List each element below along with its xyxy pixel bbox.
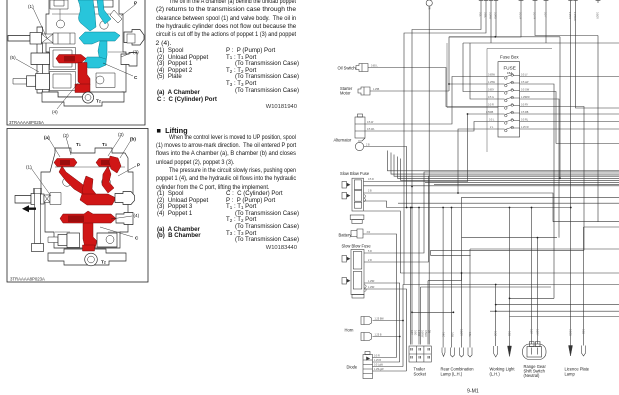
base slab fig2 <box>48 249 126 265</box>
slow fuse2 out2 bus elbow <box>364 176 619 262</box>
svg-text:Lamp (L.H.): Lamp (L.H.) <box>441 372 463 377</box>
svg-text:0.5 R: 0.5 R <box>374 355 380 358</box>
svg-text:2B: 2B <box>428 330 431 333</box>
battery connector <box>351 229 363 238</box>
svg-text:0.5 RY: 0.5 RY <box>521 104 529 107</box>
wire stub521 elbow <box>449 3 521 91</box>
spool rod shaft <box>8 36 30 42</box>
FIGURE 1 (top-left hydraulic valve, cyan+red) <box>0 0 152 127</box>
bus line b2 <box>391 153 619 175</box>
diode wire 2 <box>373 361 400 363</box>
svg-text:C: C <box>135 236 139 241</box>
valve body main block <box>41 148 133 248</box>
fuse row2 feed <box>449 83 498 85</box>
red mid channel <box>60 211 116 226</box>
range pin2 drop <box>537 238 539 344</box>
terminal stub x521 <box>519 0 524 3</box>
bottom-left bolt head <box>58 235 67 246</box>
bus line b7 <box>434 183 619 185</box>
svg-text:0.5GR: 0.5GR <box>596 12 599 19</box>
leader (5) <box>16 59 39 72</box>
svg-text:1.25 B: 1.25 B <box>375 334 382 337</box>
fuse exit row8 <box>520 128 619 130</box>
rear combination pin 1 <box>442 348 445 357</box>
starter motor connector <box>358 87 370 95</box>
spool x-box <box>42 34 54 43</box>
lower cartridge <box>50 72 76 91</box>
svg-text:(4): (4) <box>134 213 140 218</box>
leader (3) <box>108 136 121 156</box>
figure 2 border frame <box>7 129 148 283</box>
wire stub535 elbow <box>535 3 598 36</box>
red poppet top-left <box>54 159 77 167</box>
bottom-left bolt shaft <box>48 237 58 243</box>
svg-text:0.85 L: 0.85 L <box>371 65 378 68</box>
licence plate pin 1 <box>569 346 573 357</box>
svg-text:1.25LgW: 1.25LgW <box>374 368 384 371</box>
bus line b1 <box>388 151 619 171</box>
terminal stub x481 <box>479 0 483 3</box>
svg-text:0.5L: 0.5L <box>468 332 471 337</box>
bolt circle bottom <box>66 236 74 244</box>
licence plate pin 2 <box>582 346 586 357</box>
alternator connector <box>355 114 365 141</box>
svg-text:0.85L: 0.85L <box>484 12 487 19</box>
svg-text:0.85W: 0.85W <box>488 74 496 77</box>
svg-text:Slow Blow Fuse: Slow Blow Fuse <box>340 171 370 176</box>
svg-text:(1): (1) <box>26 165 32 170</box>
svg-text:0.5GB: 0.5GB <box>569 329 572 336</box>
valve body main block <box>46 0 126 97</box>
right plug P fitting <box>124 30 144 46</box>
svg-text:0.5GR: 0.5GR <box>460 329 463 336</box>
red center column <box>82 176 96 200</box>
terminal stub x546 <box>544 0 549 3</box>
red poppet top-right <box>96 159 118 167</box>
oil switch wire to fuse row5 <box>368 68 498 107</box>
svg-text:0.5G: 0.5G <box>442 332 445 337</box>
terminal stub x491 <box>489 0 493 3</box>
svg-text:2 R: 2 R <box>368 259 372 262</box>
svg-text:0.5L: 0.5L <box>479 12 482 17</box>
wire y36.8 <box>449 36 560 38</box>
diode wire 1 <box>373 357 397 359</box>
bus line b9 <box>462 196 619 198</box>
svg-text:0.5C: 0.5C <box>494 331 497 336</box>
leader (4) <box>57 82 79 109</box>
svg-text:0.5WB: 0.5WB <box>486 111 494 114</box>
wire stub546 down <box>545 3 547 43</box>
spool section fig2 <box>50 193 61 205</box>
spool center section <box>53 33 75 44</box>
arrow mark <box>22 205 36 212</box>
T2 boss circle <box>82 92 93 103</box>
working light pin 2 <box>508 346 512 357</box>
oil switch connector <box>356 64 368 72</box>
svg-text:1.25 R: 1.25 R <box>568 12 571 19</box>
list A right <box>226 48 299 94</box>
bolt circle upper <box>57 20 65 28</box>
wire licence rail left <box>570 3 572 346</box>
W code B <box>200 245 297 251</box>
wire fuse row4 feed <box>470 43 498 99</box>
svg-text:0.5GR: 0.5GR <box>424 330 427 337</box>
connector circle top <box>426 0 432 6</box>
W code A <box>200 104 297 110</box>
fuse exit row2 <box>520 84 554 298</box>
svg-text:1.25R: 1.25R <box>368 280 375 283</box>
right lower boss circle <box>106 236 114 244</box>
svg-text:Slow Blow Fuse: Slow Blow Fuse <box>342 244 372 249</box>
svg-text:0.5 R: 0.5 R <box>488 104 494 107</box>
svg-text:(a): (a) <box>44 135 50 140</box>
svg-text:C: C <box>134 75 138 80</box>
svg-text:Motor: Motor <box>340 91 351 96</box>
svg-text:Alternator: Alternator <box>334 138 352 143</box>
diode wire 3 <box>373 366 404 368</box>
svg-text:T2: T2 <box>101 260 106 265</box>
range gear shift switch <box>523 342 547 360</box>
leader P <box>121 4 136 16</box>
wire stub496 down <box>495 3 497 37</box>
cyan top right column <box>97 0 111 24</box>
rear combination pin 2 <box>451 348 455 358</box>
middle cartridge <box>50 48 76 70</box>
junction dots <box>411 186 413 188</box>
wire v403 <box>402 285 404 367</box>
svg-text:1.25B: 1.25B <box>373 88 380 91</box>
body internal lines <box>49 0 123 75</box>
svg-text:1.25RW: 1.25RW <box>521 96 530 99</box>
leader (1) <box>31 168 51 196</box>
svg-text:15A: 15A <box>507 71 512 75</box>
svg-text:(3): (3) <box>133 50 139 55</box>
range pin1 drop <box>531 208 533 345</box>
cyan horizontal channel <box>79 32 120 44</box>
slow blow fuse 1 <box>342 178 366 223</box>
svg-text:2B: 2B <box>428 7 431 10</box>
cyan vertical drop <box>98 41 107 62</box>
svg-text:1.25 B: 1.25 B <box>374 359 381 362</box>
wire link 462 <box>461 273 463 281</box>
leader (4) <box>111 216 132 219</box>
red mid dark core <box>68 216 84 223</box>
svg-text:0.5B: 0.5B <box>582 329 585 334</box>
svg-text:Oil Switch: Oil Switch <box>338 65 357 70</box>
fuse exit row5 <box>520 107 584 251</box>
bus riser b9 <box>461 197 463 237</box>
svg-text:0.5RW: 0.5RW <box>421 330 424 338</box>
lower bolt shaft <box>13 79 27 85</box>
red bottom foot <box>83 245 95 251</box>
terminal stub x535 <box>533 0 538 3</box>
leader (1) <box>33 8 47 38</box>
earth circle <box>355 142 363 150</box>
slow fuse1 out3 <box>364 193 554 222</box>
wire stub486 elbow to rail404 <box>404 3 486 285</box>
wire stub481 elbow to rail412 <box>412 3 481 345</box>
horn connector 2 <box>361 333 372 341</box>
svg-text:5 R: 5 R <box>368 250 372 253</box>
spool rod shaft fig2 <box>15 196 31 204</box>
alternator wire 1 to fuse row1 <box>365 77 498 125</box>
svg-text:(3): (3) <box>118 132 124 137</box>
svg-text:T2: T2 <box>96 99 101 104</box>
wire y221.7 <box>553 221 619 223</box>
wire licence rail right elbow <box>576 3 619 108</box>
red foot <box>75 84 90 93</box>
fuse exit row6 <box>520 113 619 115</box>
svg-text:(5): (5) <box>10 55 16 60</box>
licence pin2 drop <box>583 227 585 346</box>
alternator wire 2 to fuse row7 <box>365 122 498 132</box>
slow fuse2 out4 <box>364 289 407 371</box>
terminal stub x598 <box>596 0 601 3</box>
fuse exit row7 <box>520 121 619 123</box>
svg-text:2 B: 2 B <box>366 144 370 147</box>
fuse row8 feed riser <box>458 129 498 193</box>
wire y255.3 <box>431 250 471 255</box>
lower bolt block <box>36 74 50 90</box>
working pin2 drop <box>509 208 511 347</box>
WIRING DIAGRAM <box>330 0 619 395</box>
leader (3) <box>121 52 133 57</box>
rear pin1 drop <box>442 208 444 348</box>
plate foot <box>32 244 44 252</box>
diode block <box>363 352 373 379</box>
slow blow fuse 2 <box>342 250 366 299</box>
svg-text:1.25B: 1.25B <box>417 330 420 337</box>
bus line b4 <box>398 157 619 179</box>
red vertical passage <box>78 63 90 87</box>
slow fuse1 out2 long <box>364 185 619 187</box>
bus line b6 <box>425 181 619 183</box>
leader P <box>118 166 136 176</box>
svg-text:0.5R: 0.5R <box>530 329 533 334</box>
bolt circle left <box>63 178 72 187</box>
top cap left <box>50 0 68 9</box>
horn connector 1 <box>361 317 372 325</box>
svg-text:0.5 R: 0.5 R <box>368 178 374 181</box>
cyan lower nozzle <box>84 57 106 68</box>
red poppet dark core <box>64 56 75 62</box>
trailer feed d <box>420 287 422 345</box>
svg-text:0.5B: 0.5B <box>451 332 454 337</box>
svg-text:Diode: Diode <box>347 365 358 370</box>
svg-text:0.5Y: 0.5Y <box>410 330 413 335</box>
bolt circle lower <box>51 58 59 66</box>
red poppet TL dark core <box>60 160 70 165</box>
body internal lines <box>46 167 129 232</box>
horn wire 1 <box>373 320 404 322</box>
bolt circle upper right <box>100 21 108 29</box>
svg-text:0.5 GW: 0.5 GW <box>521 89 530 92</box>
wire fuse row3 feed <box>463 43 498 92</box>
horizontal bar block <box>31 53 50 65</box>
wire y311.2 <box>490 310 619 312</box>
right rod fitting <box>115 192 135 205</box>
svg-text:(Neutral): (Neutral) <box>524 373 541 378</box>
svg-text:Lamp: Lamp <box>565 372 576 377</box>
cyan top column <box>78 0 96 31</box>
rear pin3 drop <box>461 238 463 348</box>
list B right <box>226 191 299 244</box>
lower bolt head <box>27 76 36 87</box>
svg-text:(2): (2) <box>63 133 69 138</box>
leader (2) <box>66 137 71 155</box>
bottom-left bolt block <box>67 233 80 248</box>
top cap right <box>86 0 113 7</box>
wire y284.5 <box>403 284 619 286</box>
svg-text:Fuse Box: Fuse Box <box>500 55 519 60</box>
base slab <box>42 92 124 106</box>
svg-text:1.25R: 1.25R <box>368 286 375 289</box>
red riser top-right P <box>109 156 121 173</box>
wire y316.5 <box>510 316 619 318</box>
svg-text:(L.H.): (L.H.) <box>490 372 501 377</box>
svg-text:0.5RY: 0.5RY <box>536 329 539 336</box>
wire y143.5 <box>556 143 619 145</box>
svg-text:0.5 LY: 0.5 LY <box>521 74 528 77</box>
list A left <box>157 48 217 103</box>
svg-text:0.5RW: 0.5RW <box>489 12 492 20</box>
bolt circle right <box>102 178 111 187</box>
svg-text:0.5 RB: 0.5 RB <box>521 111 529 114</box>
rear combination pin 4 <box>468 348 472 358</box>
trailer feed e <box>427 281 429 345</box>
svg-text:(1): (1) <box>28 4 34 9</box>
fuse exit row1 <box>520 76 619 78</box>
wire y280.6 <box>428 280 462 282</box>
red arm from right poppet <box>102 166 114 193</box>
wire long y43 <box>463 42 619 44</box>
svg-text:0.5 L: 0.5 L <box>489 119 495 122</box>
svg-text:0.85Y: 0.85Y <box>488 89 495 92</box>
right fitting C <box>121 53 137 67</box>
trailer socket <box>409 346 431 362</box>
bus line b3 <box>394 155 619 177</box>
figure 1 border frame <box>7 0 145 125</box>
slow fuse1 out4 <box>364 201 387 208</box>
rear combination pin 3 <box>460 348 464 358</box>
svg-text:0.5G: 0.5G <box>414 330 417 335</box>
FIGURE 2 (bottom-left hydraulic valve, red) <box>0 127 152 285</box>
leader (b) <box>120 140 131 158</box>
svg-text:0.5 WL: 0.5 WL <box>367 128 375 131</box>
wire y287 <box>421 286 552 288</box>
svg-text:1.25WB: 1.25WB <box>573 12 576 21</box>
slow fuse1 out1 to fuse row6 <box>364 114 499 182</box>
svg-text:0.5 G: 0.5 G <box>488 96 494 99</box>
slow fuse2 out1 bus elbow <box>364 172 619 253</box>
battery wire <box>363 234 397 358</box>
wire circle feed to trailer <box>428 6 430 344</box>
terminal stub x570.5 <box>568 0 572 3</box>
trailer feed c <box>418 208 420 345</box>
junction bus y207.5 <box>387 207 571 209</box>
svg-text:Horn: Horn <box>345 328 355 333</box>
diode wire 4 <box>373 370 407 372</box>
svg-text:9-M1: 9-M1 <box>467 389 479 395</box>
slow fuse2 out3 <box>364 283 400 362</box>
svg-text:1.25 BW: 1.25 BW <box>375 318 385 321</box>
TEXT COLUMN <box>156 0 296 48</box>
svg-text:0.5B: 0.5B <box>508 331 511 336</box>
red center manifold <box>80 194 116 205</box>
leader C <box>100 227 133 237</box>
rear pin4 drop <box>469 249 471 348</box>
fuse box outer enclosure <box>447 43 552 152</box>
svg-text:3TRAAAA8P025A: 3TRAAAA8P025A <box>9 120 44 125</box>
terminal stub x575.5 <box>573 0 577 3</box>
svg-text:0.5 W: 0.5 W <box>367 121 374 124</box>
spool rod washer2 <box>41 194 45 204</box>
svg-text:FUSE: FUSE <box>504 66 516 71</box>
svg-text:0.5 LW: 0.5 LW <box>521 81 529 84</box>
leader (a) <box>49 139 60 157</box>
svg-text:Battery: Battery <box>339 233 353 238</box>
svg-text:0.5 RL: 0.5 RL <box>521 119 529 122</box>
bus line b10 <box>398 202 619 204</box>
svg-text:3 R: 3 R <box>367 231 371 234</box>
svg-text:2 B: 2 B <box>368 190 372 193</box>
svg-text:P: P <box>134 1 137 6</box>
spool x-box fig2 <box>44 195 50 203</box>
red lower vertical <box>83 223 97 248</box>
slow fuse1 out5 <box>364 211 400 273</box>
Lifting heading <box>157 126 188 135</box>
wire y227 <box>584 226 619 228</box>
rear pin2 drop <box>451 208 453 348</box>
svg-text:P: P <box>137 163 140 168</box>
trailer feed a <box>410 208 412 345</box>
spool rod washer1 <box>31 194 35 205</box>
wire y304.6 <box>496 285 619 347</box>
svg-text:3TRAAAA8P023A: 3TRAAAA8P023A <box>10 277 45 282</box>
svg-text:0.5 Y: 0.5 Y <box>544 12 547 18</box>
Lifting paragraphs <box>156 134 296 192</box>
wire y273 <box>400 272 619 274</box>
svg-text:T3: T3 <box>102 142 107 147</box>
svg-text:0.5 YR: 0.5 YR <box>533 12 536 20</box>
wire y298.4 <box>510 297 555 299</box>
fuse exit row4 <box>520 99 559 238</box>
svg-text:1.25W: 1.25W <box>488 81 496 84</box>
svg-text:T1: T1 <box>76 142 81 147</box>
left plate vertical <box>34 189 42 244</box>
working light pin 1 <box>494 346 498 357</box>
red poppet TR dark core <box>101 160 111 165</box>
T2 boss circle fig2 <box>85 253 98 266</box>
starter motor wire <box>370 90 449 92</box>
wire y249 <box>470 248 619 250</box>
fuse symbols <box>498 74 520 132</box>
wire v598 down <box>597 36 599 222</box>
right lower boss <box>97 233 117 247</box>
bus line b5 <box>401 159 619 181</box>
wire v560 down <box>559 37 561 179</box>
wire y312.3 <box>412 311 453 313</box>
body earth wire to junction bus <box>364 147 407 208</box>
vertical plate <box>37 27 43 93</box>
wire stub491 down <box>490 3 492 43</box>
wire y237.6 <box>462 237 558 239</box>
wire y250.3 <box>431 249 584 251</box>
svg-text:(4): (4) <box>52 110 58 115</box>
right plug inner <box>127 34 135 43</box>
svg-text:(b): (b) <box>130 137 136 142</box>
list B left <box>157 191 208 240</box>
